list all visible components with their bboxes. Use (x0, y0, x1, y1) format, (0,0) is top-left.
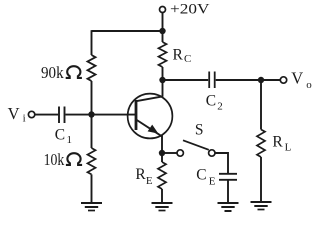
transistor Q1 emitter lead (136, 120, 162, 137)
transistor Q1 collector lead (136, 96, 162, 101)
svg-text:V: V (291, 69, 303, 88)
wire output node to Vo terminal (261, 79, 280, 81)
capacitor CE (219, 173, 237, 175)
wire R1 to base node (91, 81, 93, 148)
capacitor C1 (58, 107, 60, 124)
wire top horizontal (92, 30, 163, 32)
wire C2 to output node (216, 79, 261, 81)
svg-text:2: 2 (217, 100, 223, 112)
svg-text:V: V (8, 104, 20, 123)
svg-text:E: E (146, 175, 153, 187)
svg-text:L: L (285, 142, 292, 154)
transistor Q1 base bar (135, 100, 138, 130)
node: emitter junction (159, 150, 165, 156)
transistor Q1 emitter arrow (148, 125, 159, 134)
switch S left contact (177, 150, 183, 156)
svg-text:+20V: +20V (170, 1, 210, 17)
wire RC to collector node (162, 67, 164, 97)
resistor RL zigzag (257, 130, 265, 158)
transistor Q1 circle (128, 94, 173, 139)
wire RE to ground (161, 189, 163, 203)
wire R2 to ground (91, 174, 93, 202)
node: top junction (159, 28, 165, 34)
wire collector to C2 (163, 79, 209, 81)
resistor R1 90k zigzag (88, 55, 96, 81)
svg-text:C: C (206, 92, 216, 109)
node: output junction (258, 77, 264, 83)
svg-text:90k: 90k (41, 63, 64, 82)
svg-text:C: C (196, 167, 206, 184)
resistor RC zigzag (159, 42, 167, 67)
svg-text:C: C (184, 53, 191, 65)
svg-text:E: E (209, 175, 216, 187)
svg-text:i: i (23, 113, 26, 125)
svg-text:o: o (306, 79, 312, 91)
switch S right contact (209, 150, 215, 156)
ground G3 (218, 203, 239, 211)
ground G4 (251, 202, 272, 210)
ground G1 (81, 203, 102, 211)
wire Vi to C1 (35, 114, 58, 116)
switch S blade (183, 140, 209, 150)
resistor R2 10k zigzag (88, 148, 96, 174)
node: base junction (88, 111, 94, 117)
input terminal Vi (28, 111, 34, 117)
resistor RE zigzag (158, 162, 166, 189)
ground G2 (152, 203, 173, 211)
node: collector junction (159, 77, 165, 83)
wire C1 to base (66, 114, 137, 116)
svg-text:10k: 10k (44, 150, 65, 169)
svg-text:1: 1 (67, 134, 73, 146)
wire emitter node to switch (162, 152, 177, 154)
wire supply to top node (162, 13, 164, 32)
supply terminal +20V (160, 7, 166, 13)
wire emitter down (161, 135, 163, 153)
svg-text:S: S (195, 122, 204, 139)
svg-text:C: C (55, 127, 65, 144)
svg-text:R: R (135, 166, 146, 183)
output terminal Vo (280, 77, 286, 83)
resistor RC top wire (162, 31, 164, 42)
wire switch to CE (215, 153, 228, 173)
wire output node down to RL (260, 80, 262, 130)
capacitor C2 (208, 72, 210, 89)
wire CE to ground (227, 180, 229, 203)
wire RL to ground (260, 157, 262, 202)
svg-text:R: R (272, 134, 283, 151)
wire emitter node to RE (161, 153, 163, 162)
wire top node down to R1 (91, 30, 93, 55)
svg-text:R: R (173, 46, 184, 63)
